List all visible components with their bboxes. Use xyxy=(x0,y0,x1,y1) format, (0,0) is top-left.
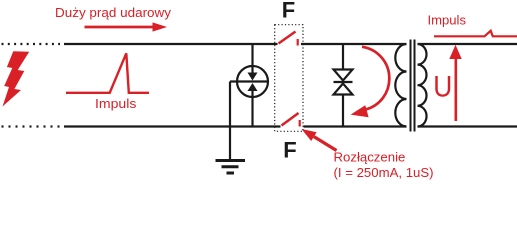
svg-text:Duży prąd udarowy: Duży prąd udarowy xyxy=(55,5,171,20)
svg-text:Impuls: Impuls xyxy=(428,12,467,27)
svg-text:F: F xyxy=(282,0,295,23)
svg-text:Impuls: Impuls xyxy=(95,96,137,111)
svg-text:Rozłączenie: Rozłączenie xyxy=(334,150,406,165)
svg-text:F: F xyxy=(283,138,296,163)
svg-text:(I = 250mA, 1uS): (I = 250mA, 1uS) xyxy=(334,165,434,180)
svg-text:U: U xyxy=(433,70,452,103)
